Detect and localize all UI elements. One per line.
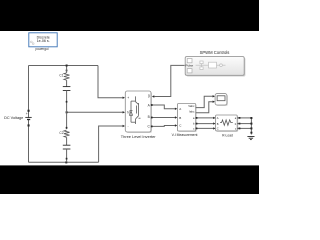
svg-text:C2: C2 xyxy=(59,131,63,135)
svg-text:+: + xyxy=(127,96,129,100)
powergui block xyxy=(29,33,57,51)
junction node: bus at a xyxy=(250,117,252,119)
bottom letterbox bar xyxy=(0,165,259,194)
wire: inverter A to V-I measurement A xyxy=(151,105,176,109)
wire: Iabc to scope input 2 xyxy=(196,102,214,113)
svg-text:C: C xyxy=(217,127,219,131)
IGBT with anti-parallel diode icon xyxy=(130,96,141,124)
capacitor C2 (series RC branch) xyxy=(59,112,70,162)
junction node: bottom bus / C2 xyxy=(65,161,67,163)
three level inverter U1 xyxy=(121,91,157,139)
junction node: bus at b xyxy=(250,123,252,125)
wire: right bus vertical xyxy=(250,118,252,135)
SPWM controls subsystem xyxy=(185,50,245,76)
svg-text:g: g xyxy=(148,93,150,97)
wire: left vertical bus from top wire to bottom wire xyxy=(28,66,30,163)
wire: V-I b to R-L load B xyxy=(196,123,215,125)
svg-text:A: A xyxy=(179,107,181,111)
wire: R-L b to right bus xyxy=(237,123,251,125)
wire: drop from top bus to inverter plus input xyxy=(98,66,123,98)
svg-text:A: A xyxy=(217,116,219,120)
svg-text:Iabc: Iabc xyxy=(189,110,195,114)
top letterbox bar xyxy=(0,0,259,31)
wire: inverter C to V-I measurement C xyxy=(151,125,176,128)
wire: SPWM pulse output down to inverter g input xyxy=(154,65,184,96)
wire: R-L c to right bus xyxy=(237,127,251,129)
svg-text:SPWM Controls: SPWM Controls xyxy=(200,50,230,55)
svg-text:DC Voltage: DC Voltage xyxy=(4,116,23,120)
DC voltage source V1 xyxy=(4,110,32,127)
wire: V-I c to R-L load C xyxy=(196,127,215,129)
svg-text:powergui: powergui xyxy=(36,47,49,51)
svg-text:V-I Measurement: V-I Measurement xyxy=(172,133,198,137)
SPWM icon: wiring and small blocks xyxy=(196,61,226,70)
svg-text:C1: C1 xyxy=(59,73,63,77)
svg-text:Three Level Inverter: Three Level Inverter xyxy=(121,134,157,139)
junction node: bus at c xyxy=(250,127,252,129)
svg-text:1e-06 s.: 1e-06 s. xyxy=(37,39,50,43)
SPWM icon: outport block 1 xyxy=(187,59,192,63)
ground xyxy=(247,132,254,140)
svg-text:Pulse: Pulse xyxy=(186,64,194,68)
svg-text:B: B xyxy=(148,115,150,119)
V-I measurement block xyxy=(172,104,198,138)
R-L load resistor-inductor icon xyxy=(220,120,233,125)
wire: neutral from capacitor midpoint to inverter N input xyxy=(67,111,124,113)
svg-text:-: - xyxy=(128,125,129,129)
svg-text:Vabc: Vabc xyxy=(188,104,195,108)
wire: Vabc to scope input 1 xyxy=(196,96,214,107)
wire: bottom horizontal bus xyxy=(29,161,99,163)
arrowhead into inverter g port (pointing left) xyxy=(152,95,154,97)
junction node: neutral midpoint xyxy=(66,111,68,113)
arrowhead into inverter minus port xyxy=(123,125,125,127)
wire: rise from bottom bus to inverter minus input xyxy=(99,126,124,162)
R-L load block xyxy=(216,115,239,138)
wire: V-I a to R-L load A xyxy=(196,117,215,119)
svg-text:R-Load: R-Load xyxy=(222,134,233,138)
svg-text:+: + xyxy=(26,112,28,116)
arrowhead into inverter plus port xyxy=(123,97,125,99)
svg-text:B: B xyxy=(179,116,181,120)
capacitor C1 (series RC branch) xyxy=(59,67,70,113)
svg-text:B: B xyxy=(217,122,219,126)
wire: top horizontal bus xyxy=(29,65,99,67)
SPWM icon: outport block 2 xyxy=(187,69,192,73)
scope block xyxy=(215,94,228,106)
wire: inverter B to V-I measurement B xyxy=(151,117,176,119)
arrowhead into inverter N port xyxy=(123,111,125,113)
junction node: top bus / C1 xyxy=(66,65,68,67)
wire: R-L a to right bus xyxy=(237,117,251,119)
